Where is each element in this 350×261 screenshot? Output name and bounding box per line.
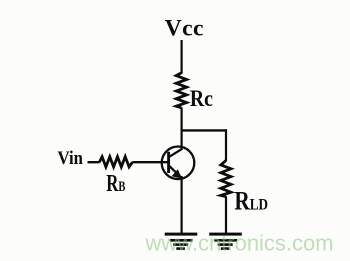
wire emitter to ground [181, 176, 183, 233]
wire Rc to collector [181, 108, 183, 151]
resistor RLD [221, 161, 231, 197]
transistor Q1 collector diagonal [169, 149, 182, 157]
resistor RB [99, 157, 132, 167]
svg-text:RLD: RLD [234, 188, 268, 216]
ground (emitter) [165, 233, 198, 250]
resistor Rc [176, 73, 186, 108]
wire RLD branch top [225, 129, 227, 161]
svg-text:Vcc: Vcc [165, 16, 204, 42]
transistor Q1 emitter arrow [172, 169, 182, 178]
wire RB to base [132, 161, 168, 163]
ground (RLD) [209, 233, 242, 250]
wire Vin to RB [88, 161, 100, 163]
svg-text:RB: RB [106, 171, 125, 196]
wire RLD to ground [225, 196, 227, 233]
svg-text:Vin: Vin [58, 147, 83, 168]
transistor Q1 emitter diagonal [169, 165, 181, 177]
transistor Q1 base bar [167, 152, 170, 173]
svg-text:Rc: Rc [190, 86, 213, 112]
transistor Q1 circle [162, 147, 195, 180]
wire collector node to RLD branch [181, 129, 228, 131]
wire Vcc to Rc [181, 40, 183, 74]
svg-text:www.cntronics.com: www.cntronics.com [145, 231, 334, 256]
